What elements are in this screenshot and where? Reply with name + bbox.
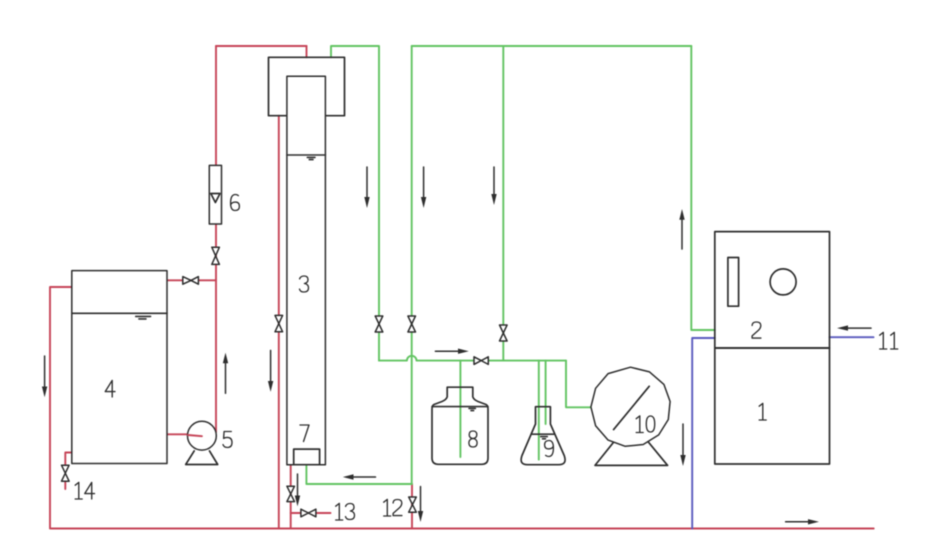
wire: green return to column-3 bottom (306, 465, 412, 484)
column 3 body (287, 76, 326, 465)
label 3 (300, 276, 309, 292)
wire: red tank-4 drain stub to valve 14 (65, 453, 71, 490)
label 2 (752, 322, 761, 338)
label 11 (880, 332, 898, 349)
column 3 bottom insert box 7 (294, 449, 320, 465)
arrow down near green x=503.3 (491, 167, 496, 205)
arrow down right of valve 12 (418, 487, 423, 523)
valve on condenser drain riser (275, 315, 283, 331)
valve on column 3 bottom drain (287, 486, 295, 501)
wire: green condenser vent to manifold x=379 (331, 46, 379, 361)
bottle 8 level mark (469, 408, 475, 410)
pump 5 casing (188, 421, 217, 450)
label 4 (105, 380, 115, 397)
unit 2 cabinet (715, 232, 830, 348)
valve on green line x=503.3 (500, 325, 508, 341)
blower 10 diagonal mark (614, 386, 650, 429)
wire: red drop into condenser top (306, 46, 308, 57)
arrow down near green x=379 (364, 167, 369, 208)
arrow down on column 3 drain (295, 474, 300, 506)
label 12 (384, 499, 402, 516)
valve on green line x=379 (375, 316, 383, 332)
wire: red tank-4 bypass line y=280.3 (167, 279, 216, 281)
wire: green manifold outlet to blower 10 (566, 361, 591, 408)
wire: green drop x=411.7 to valve 12 junction (411, 46, 413, 484)
wire: green gas manifold y=360.6 with hop over x=411.7 (379, 356, 566, 361)
label 13 (336, 503, 355, 520)
label 7 (300, 425, 309, 442)
rotameter 6 float (211, 194, 220, 203)
wire: green drop x=503.3 to manifold (502, 46, 504, 361)
arrow down near green x=411.7 (421, 167, 426, 208)
valve on tank 4 bypass (183, 277, 199, 285)
tank 4 level mark (136, 316, 151, 319)
arrow down on condenser drain (268, 350, 273, 392)
tank 4 (72, 271, 167, 464)
wire: red pump-5 suction line (167, 433, 202, 435)
arrow right on bottom header (786, 519, 819, 524)
unit 2 slot window (728, 258, 739, 307)
blower 10 stand (595, 439, 668, 465)
wire: blue inlet 11 to unit 2 right side (830, 336, 874, 338)
wire: red drain below valve 12 (411, 484, 413, 529)
tank 4 liquid level line (72, 312, 167, 314)
valve 14 (62, 465, 70, 481)
wire: red tank-4 left overflow line (50, 287, 72, 529)
bottle 8 shoulder line (432, 406, 488, 408)
pump 5 stand (186, 451, 218, 465)
arrow left on column return line (343, 474, 376, 479)
valve on rotameter line (212, 247, 220, 264)
wire: blue line from unit 2 left side down to bottom header (692, 338, 715, 529)
valve 13 (301, 509, 316, 517)
wire: green short tube in flask 9 (545, 361, 547, 424)
wire: red top feed header y=46 (216, 45, 307, 47)
wire: red bottom main header y=528.5 (51, 528, 874, 530)
wire: red column-3 bottom drain x=290.7 (290, 465, 292, 529)
label 6 (231, 195, 240, 211)
wire: green supply drop to unit 2 (691, 46, 715, 330)
arrow down left of tank 4 (42, 356, 47, 397)
flask 9 liquid level line (532, 433, 554, 435)
valve on green manifold y=360.6 (474, 357, 488, 365)
unit 2 round dial (770, 269, 796, 295)
wire: red branch to valve 13 (291, 512, 331, 514)
wire: green dip tube into bottle 8 (459, 361, 461, 457)
arrow right on gas manifold (435, 349, 468, 354)
condenser box on column 3 (269, 57, 345, 115)
pump 5 suction line inside casing (188, 435, 202, 436)
unit 1 cabinet (715, 348, 830, 464)
wire: red pump discharge riser x=216 (215, 46, 217, 432)
column 3 level mark (307, 157, 315, 159)
blower 10 casing (591, 367, 670, 446)
label 14 (75, 482, 94, 499)
arrow down on blue line (680, 424, 685, 466)
label 5 (223, 432, 232, 448)
arrow up near green x=691.3 (679, 209, 684, 249)
flask 9 level mark (541, 437, 548, 439)
rotameter 6 (209, 165, 221, 224)
wire: red condenser drain riser x=278.8 (278, 116, 280, 529)
wire: green top supply header y=46 (412, 45, 692, 47)
wire: green dip tube into flask 9 (538, 361, 540, 460)
valve 12 (409, 497, 417, 512)
flask 9 (521, 407, 565, 465)
label 1 (759, 403, 766, 420)
arrow up right of tank 4 (223, 353, 228, 394)
label 10 (636, 416, 655, 433)
label 9 (545, 441, 554, 457)
bottle 8 body (432, 387, 488, 464)
arrow left above blue inlet 11 (837, 325, 871, 330)
label 8 (469, 431, 477, 447)
column 3 liquid level line (287, 154, 326, 156)
valve on green line x=411.7 (408, 316, 416, 332)
